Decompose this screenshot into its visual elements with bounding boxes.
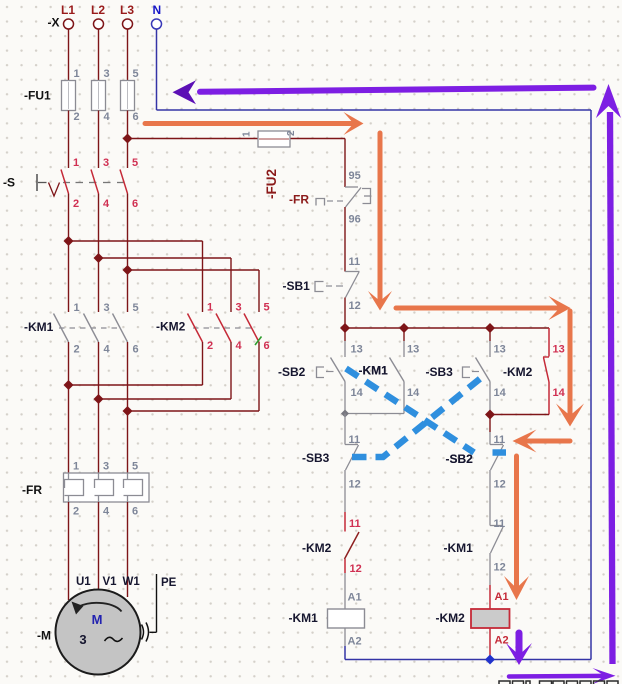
svg-text:3: 3: [103, 461, 109, 473]
svg-text:-SB1: -SB1: [283, 279, 311, 293]
svg-text:V1: V1: [103, 576, 118, 588]
svg-text:12: 12: [349, 479, 361, 491]
svg-text:6: 6: [133, 344, 139, 356]
svg-text:14: 14: [407, 387, 420, 399]
svg-text:-FR: -FR: [22, 483, 42, 497]
svg-text:1: 1: [74, 302, 80, 314]
svg-text:13: 13: [351, 344, 363, 356]
svg-text:11: 11: [494, 518, 506, 530]
svg-text:13: 13: [494, 344, 506, 356]
svg-text:2: 2: [73, 506, 79, 518]
svg-text:A1: A1: [348, 592, 362, 604]
svg-text:11: 11: [349, 256, 361, 268]
svg-text:96: 96: [349, 214, 361, 226]
svg-text:-KM1: -KM1: [289, 611, 319, 625]
svg-text:5: 5: [133, 302, 139, 314]
svg-text:A2: A2: [348, 636, 362, 648]
svg-text:M: M: [92, 612, 103, 627]
svg-text:14: 14: [351, 387, 364, 399]
svg-text:-SB3: -SB3: [426, 365, 454, 379]
svg-text:14: 14: [494, 387, 507, 399]
svg-text:A2: A2: [495, 635, 509, 647]
svg-text:6: 6: [133, 111, 139, 123]
svg-text:95: 95: [349, 170, 361, 182]
svg-text:-FU1: -FU1: [24, 89, 51, 103]
svg-text:4: 4: [103, 198, 110, 210]
svg-text:3: 3: [104, 68, 110, 80]
svg-text:2: 2: [207, 340, 213, 352]
svg-text:3: 3: [104, 302, 110, 314]
svg-text:-SB3: -SB3: [302, 451, 330, 465]
svg-text:1: 1: [73, 157, 79, 169]
svg-text:5: 5: [264, 302, 270, 314]
svg-text:3: 3: [236, 302, 242, 314]
svg-text:2: 2: [74, 344, 80, 356]
svg-text:6: 6: [264, 340, 270, 352]
svg-text:4: 4: [104, 111, 111, 123]
svg-text:1: 1: [74, 68, 80, 80]
svg-text:4: 4: [103, 506, 110, 518]
svg-text:12: 12: [494, 479, 506, 491]
svg-text:-KM2: -KM2: [503, 365, 533, 379]
svg-text:5: 5: [133, 68, 139, 80]
svg-text:-FU2: -FU2: [264, 169, 279, 199]
svg-text:3: 3: [103, 157, 109, 169]
svg-text:-X: -X: [48, 16, 60, 30]
svg-text:-KM2: -KM2: [436, 611, 466, 625]
svg-text:PE: PE: [161, 577, 177, 589]
svg-text:-KM2: -KM2: [302, 541, 332, 555]
svg-text:3: 3: [79, 632, 86, 647]
svg-text:U1: U1: [76, 576, 91, 588]
svg-text:L2: L2: [91, 3, 105, 17]
svg-text:-KM2: -KM2: [156, 320, 186, 334]
svg-text:-S: -S: [3, 176, 15, 190]
svg-text:-KM1: -KM1: [359, 364, 389, 378]
svg-text:12: 12: [494, 562, 506, 574]
svg-text:4: 4: [236, 340, 243, 352]
svg-text:11: 11: [349, 518, 361, 530]
svg-text:12: 12: [349, 300, 361, 312]
svg-text:12: 12: [350, 563, 362, 575]
svg-text:14: 14: [553, 387, 566, 399]
svg-text:-KM1: -KM1: [444, 541, 474, 555]
svg-text:-SB2: -SB2: [278, 365, 306, 379]
svg-text:5: 5: [132, 461, 138, 473]
svg-text:L3: L3: [120, 3, 134, 17]
svg-text:W1: W1: [123, 576, 141, 588]
svg-text:1: 1: [207, 302, 213, 314]
svg-text:6: 6: [132, 198, 138, 210]
svg-text:1: 1: [73, 461, 79, 473]
svg-text:N: N: [153, 3, 162, 17]
svg-text:-KM1: -KM1: [24, 320, 54, 334]
svg-text:13: 13: [407, 344, 419, 356]
svg-text:4: 4: [104, 344, 111, 356]
svg-text:2: 2: [74, 111, 80, 123]
svg-text:5: 5: [132, 157, 138, 169]
svg-text:1: 1: [242, 131, 253, 137]
svg-text:L1: L1: [61, 3, 75, 17]
svg-text:-M: -M: [37, 629, 51, 643]
svg-text:2: 2: [73, 198, 79, 210]
svg-text:2: 2: [286, 130, 297, 136]
svg-text:6: 6: [132, 506, 138, 518]
svg-text:13: 13: [553, 344, 565, 356]
svg-text:-SB2: -SB2: [446, 452, 474, 466]
svg-text:A1: A1: [495, 591, 509, 603]
svg-text:-FR: -FR: [289, 193, 309, 207]
